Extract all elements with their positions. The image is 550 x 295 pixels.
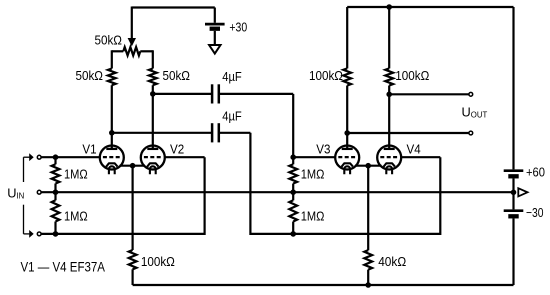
wire: V1 plate node to C2: [112, 132, 212, 134]
svg-text:4µF: 4µF: [222, 108, 242, 123]
junctions on left 1M stack: [53, 154, 59, 160]
wire: C1 to V3 grid node: [219, 93, 293, 95]
resistor 1M upper-left: [54, 157, 56, 164]
wire: V2 plate node to C1: [153, 93, 212, 95]
svg-text:V2: V2: [170, 141, 184, 156]
svg-text:V4: V4: [407, 141, 421, 156]
svg-text:V3: V3: [316, 141, 330, 156]
svg-text:50kΩ: 50kΩ: [163, 68, 191, 83]
triode V3: [335, 145, 359, 175]
resistor 40k: [364, 250, 372, 269]
wire: top input line to V1 grid: [41, 156, 101, 158]
svg-text:4µF: 4µF: [222, 69, 242, 84]
resistor 1M lower-right: [292, 192, 294, 200]
triode V2: [141, 145, 165, 175]
svg-text:100kΩ: 100kΩ: [395, 68, 429, 83]
junction on V1 plate lead: [109, 130, 115, 136]
capacitor C1 4uF: [211, 84, 214, 103]
svg-text:1MΩ: 1MΩ: [64, 167, 88, 182]
junction with right-pointing arrow: [511, 190, 517, 196]
svg-text:+60: +60: [526, 165, 545, 180]
wire: top bus from pot wiper to +30 battery: [132, 6, 215, 8]
wire: V4 plate lead up: [388, 86, 390, 147]
wire: V3-V4 cathode link: [355, 165, 381, 167]
resistor 50k right (vertical): [149, 69, 157, 86]
triode V4: [377, 145, 401, 175]
wire: grid node to V3: [293, 156, 336, 158]
svg-text:50kΩ: 50kΩ: [95, 33, 123, 48]
potentiometer R1 50k (horizontal): [112, 50, 124, 52]
wire: U_OUT lower lead from V3 plate: [347, 132, 469, 134]
svg-text:+30: +30: [229, 20, 247, 35]
wire: C2 right to lower-right bus: [219, 132, 250, 134]
wire: cathode lead down to 40k: [367, 166, 369, 251]
capacitor C2 4uF: [211, 123, 214, 142]
resistor 100k cathode: [129, 250, 137, 269]
wire: pot left end down: [111, 50, 113, 68]
wire: V3 plate lead up: [346, 86, 348, 147]
wire: V2 grid to right and down: [164, 156, 204, 158]
svg-text:1MΩ: 1MΩ: [301, 209, 325, 224]
resistor 1M lower-left: [54, 192, 56, 200]
wire: bottom bus: [133, 284, 514, 286]
wire: pot right end down: [152, 50, 154, 68]
wire: 50k right to V2 plate: [152, 85, 154, 146]
svg-text:V1 — V4 EF37A: V1 — V4 EF37A: [21, 259, 106, 274]
input terminals: [37, 155, 41, 159]
wire: V1-V2 cathode link: [120, 165, 145, 167]
resistor 50k left (vertical): [108, 69, 116, 86]
resistor 100k left plate load: [343, 68, 351, 85]
battery -30: [512, 192, 514, 209]
svg-text:1MΩ: 1MΩ: [301, 167, 325, 182]
wire: wiper lead with down arrow: [131, 7, 133, 40]
wire: middle bus: [41, 191, 514, 193]
svg-text:100kΩ: 100kΩ: [309, 68, 343, 83]
input bracket U_IN with arrows: [23, 157, 25, 182]
svg-text:V1: V1: [82, 141, 96, 156]
svg-text:50kΩ: 50kΩ: [76, 68, 104, 83]
wire: -30 down to bottom bus: [512, 219, 514, 286]
svg-text:100kΩ: 100kΩ: [141, 254, 175, 269]
triode V1: [100, 145, 124, 175]
wire: V4 grid leg: [439, 157, 441, 235]
wire: 50k left to V1 plate: [111, 85, 113, 146]
wire: bottom-left bus: [41, 233, 205, 235]
battery +30 supply: [214, 8, 216, 23]
wire: top bus to +60: [347, 6, 513, 8]
ground symbol under +30: [209, 45, 220, 54]
svg-text:40kΩ: 40kΩ: [378, 254, 406, 269]
wire: U_OUT upper lead from V4 plate: [389, 93, 469, 95]
battery +60: [504, 169, 524, 172]
resistor 1M upper-right: [292, 157, 294, 164]
svg-text:−30: −30: [526, 205, 544, 220]
junction on V2 plate lead: [150, 91, 156, 97]
wire: cathode lead down to 100k: [132, 166, 134, 250]
svg-text:1MΩ: 1MΩ: [64, 209, 88, 224]
resistor 100k right plate load: [385, 68, 393, 85]
wire: right vertical from top bus: [512, 7, 514, 169]
